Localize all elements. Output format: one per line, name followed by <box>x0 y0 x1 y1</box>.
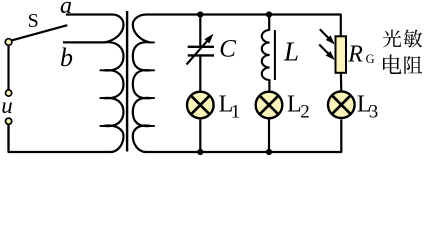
photoresistor light arrow 1 <box>320 29 330 39</box>
svg-text:u: u <box>1 93 13 118</box>
svg-text:2: 2 <box>300 102 310 123</box>
switch S blade <box>10 25 67 41</box>
node: bottom rail junction branch 2 <box>266 149 272 155</box>
label 敏 <box>404 29 422 47</box>
wire: switch pivot down to source <box>7 45 9 90</box>
secondary winding turn ticks <box>150 42 155 126</box>
svg-text:S: S <box>28 10 39 32</box>
wire: contact b lead to primary tap <box>63 41 105 43</box>
photoresistor light arrow 2 <box>319 45 329 55</box>
transformer primary winding (with contact-a lead and bottom wire) <box>9 15 124 153</box>
svg-text:1: 1 <box>231 102 241 123</box>
inductor L winding <box>262 30 270 80</box>
node: top rail junction branch 2 <box>266 11 272 17</box>
variable capacitor C upper plate <box>188 46 214 48</box>
wire: branch 1 upper lead <box>199 15 201 47</box>
inductor core line <box>274 30 276 80</box>
svg-text:a: a <box>60 0 72 19</box>
label 电 <box>383 54 401 74</box>
wire: branch 2 upper lead <box>268 15 270 31</box>
primary winding turn ticks <box>100 70 105 126</box>
photoresistor RG body <box>336 36 347 73</box>
wire: branch 1 mid lead <box>199 55 201 92</box>
source terminal upper <box>6 90 12 96</box>
lamp L3 <box>328 91 355 118</box>
lamp L1 <box>187 92 214 119</box>
wire: branch 2 lower lead <box>268 119 270 153</box>
svg-text:L: L <box>283 37 299 67</box>
svg-text:b: b <box>60 43 73 72</box>
svg-text:3: 3 <box>369 102 379 123</box>
transformer core <box>126 11 128 152</box>
switch pivot terminal <box>5 39 12 46</box>
lamp L2 <box>256 92 283 119</box>
variable capacitor C lower plate <box>188 54 214 56</box>
node: bottom rail junction branch 1 <box>197 149 203 155</box>
wire: branch 2 mid lead <box>268 80 270 93</box>
wire: branch 1 lower lead <box>199 119 201 153</box>
svg-text:R: R <box>347 41 363 67</box>
source terminal lower <box>6 118 12 124</box>
svg-text:G: G <box>366 52 375 66</box>
label 光 <box>383 29 401 47</box>
transformer secondary winding with top and bottom rails <box>133 15 341 153</box>
node: top rail junction branch 1 <box>197 11 203 17</box>
wire: source lower lead to bottom-left corner <box>7 124 9 150</box>
svg-text:C: C <box>219 36 236 63</box>
wire: branch 3 mid lead <box>340 73 343 92</box>
label 阻 <box>404 56 422 74</box>
variable capacitor arrow <box>187 40 209 65</box>
